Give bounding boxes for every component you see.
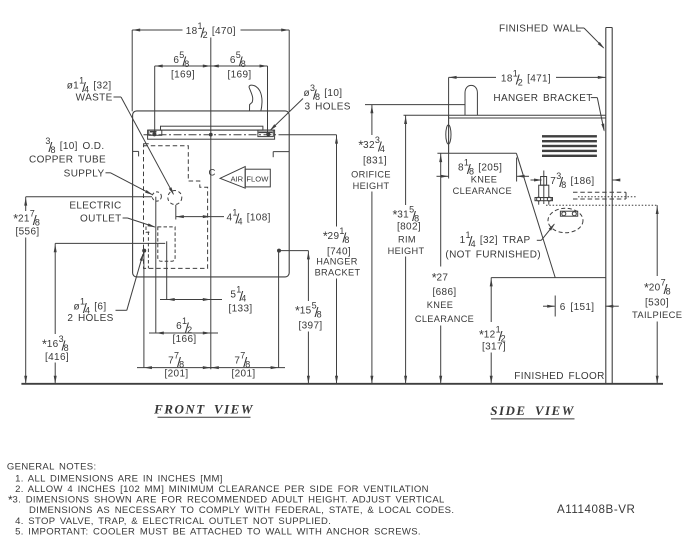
svg-text:*27: *27 [432, 271, 449, 285]
svg-text:GENERAL NOTES:: GENERAL NOTES: [7, 462, 97, 473]
svg-text:[802]: [802] [397, 222, 421, 233]
svg-text:4. STOP VALVE, TRAP, & ELECTR: 4. STOP VALVE, TRAP, & ELECTRICAL OUTLET… [15, 516, 331, 527]
svg-text:HEIGHT: HEIGHT [353, 181, 390, 191]
svg-text:[133]: [133] [229, 304, 253, 315]
svg-text:[831]: [831] [363, 156, 387, 167]
svg-text:1. ALL DIMENSIONS ARE IN INCH: 1. ALL DIMENSIONS ARE IN INCHES [MM] [15, 473, 223, 484]
svg-text:RIM: RIM [398, 235, 416, 245]
svg-text:C: C [208, 167, 215, 178]
svg-text:[397]: [397] [299, 321, 323, 332]
svg-text:ORIFICE: ORIFICE [351, 169, 391, 179]
svg-text:AIR: AIR [230, 174, 243, 183]
svg-text:SUPPLY: SUPPLY [64, 169, 105, 180]
svg-text:FINISHED FLOOR: FINISHED FLOOR [514, 371, 604, 382]
svg-text:[169]: [169] [171, 70, 195, 81]
svg-text:[169]: [169] [228, 70, 252, 81]
svg-text:HEIGHT: HEIGHT [388, 246, 425, 256]
svg-text:2 HOLES: 2 HOLES [67, 313, 113, 324]
svg-text:FLOW: FLOW [246, 174, 269, 183]
svg-text:[166]: [166] [173, 334, 197, 345]
svg-text:[317]: [317] [482, 342, 506, 353]
svg-text:ELECTRIC: ELECTRIC [69, 200, 121, 211]
svg-text:6 [151]: 6 [151] [560, 302, 595, 313]
svg-text:FINISHED WALL: FINISHED WALL [499, 23, 582, 34]
svg-text:CLEARANCE: CLEARANCE [415, 314, 474, 324]
svg-text:BRACKET: BRACKET [315, 268, 361, 278]
svg-text:2. ALLOW 4 INCHES [102 MM] MI: 2. ALLOW 4 INCHES [102 MM] MINIMUM CLEAR… [15, 484, 429, 495]
svg-text:KNEE: KNEE [427, 300, 453, 310]
svg-text:5. IMPORTANT: COOLER MUST BE: 5. IMPORTANT: COOLER MUST BE ATTACHED TO… [15, 526, 421, 537]
svg-text:CLEARANCE: CLEARANCE [453, 186, 512, 196]
svg-text:OUTLET: OUTLET [80, 213, 122, 224]
svg-text:WASTE: WASTE [76, 93, 113, 104]
svg-text:HANGER: HANGER [316, 257, 357, 267]
svg-text:3 HOLES: 3 HOLES [305, 102, 351, 113]
svg-text:TAILPIECE: TAILPIECE [632, 309, 682, 320]
svg-text:COPPER TUBE: COPPER TUBE [29, 155, 106, 166]
svg-text:SIDE VIEW: SIDE VIEW [490, 403, 575, 418]
svg-text:[201]: [201] [165, 369, 189, 380]
svg-text:DIMENSIONS AS NECESSARY TO COM: DIMENSIONS AS NECESSARY TO COMPLY WITH F… [29, 505, 454, 516]
svg-text:[556]: [556] [16, 227, 40, 238]
svg-text:KNEE: KNEE [471, 174, 497, 184]
svg-text:HANGER BRACKET: HANGER BRACKET [493, 93, 592, 104]
svg-text:[201]: [201] [232, 369, 256, 380]
svg-text:[416]: [416] [45, 352, 69, 363]
svg-text:FRONT VIEW: FRONT VIEW [153, 402, 254, 417]
svg-text:(NOT FURNISHED): (NOT FURNISHED) [445, 249, 541, 260]
svg-text:A111408B-VR: A111408B-VR [557, 503, 635, 516]
svg-text:[530]: [530] [645, 298, 669, 309]
svg-text:[686]: [686] [433, 287, 457, 298]
